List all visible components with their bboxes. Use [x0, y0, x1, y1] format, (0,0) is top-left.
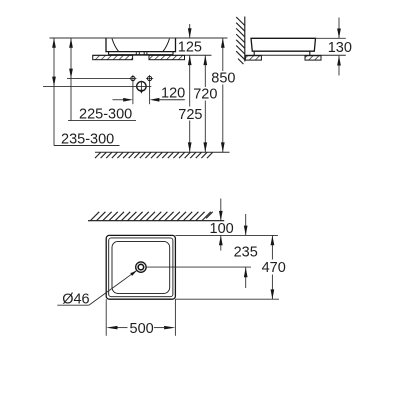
svg-text:125: 125: [178, 40, 202, 56]
wall line (side view): [244, 17, 246, 62]
drain fitting ticks under basin: [136, 52, 147, 55]
bowl curve right: [163, 39, 170, 52]
dimension 235: [245, 214, 247, 235]
reference line B through drain (235-300 level): [43, 85, 151, 87]
dimension 120: [113, 99, 127, 101]
svg-text:725: 725: [178, 107, 202, 123]
drain label text Ø46 with shelf: [57, 304, 89, 306]
mounting bracket right (side view): [305, 56, 321, 60]
dimension 130: [338, 18, 340, 39]
svg-text:120: 120: [161, 85, 185, 101]
wall hatch strokes (plan): [91, 212, 213, 221]
floor hatch strokes: [95, 152, 213, 158]
top reference line (basin rim level): [50, 37, 228, 39]
wall hatch strokes (side view): [236, 17, 245, 64]
counter hatched band left segment: [93, 55, 133, 59]
faucet hole right (front): [148, 76, 152, 80]
square bottom extension line (plan): [175, 298, 279, 300]
counter hatched band right segment: [149, 55, 185, 59]
500 extension line left: [105, 299, 107, 336]
svg-text:235: 235: [234, 244, 258, 260]
svg-text:850: 850: [211, 71, 235, 87]
drain hole circle (front): [137, 82, 146, 91]
dimension 720 line: [204, 55, 206, 87]
drain inner circle (plan): [138, 264, 144, 270]
drain outer circle (plan): [136, 262, 146, 272]
svg-text:225-300: 225-300: [79, 107, 132, 123]
dimension 725 line (shares x with 125 bottom arrow): [189, 55, 191, 106]
counter line (side view): [245, 54, 346, 56]
mounting bracket left (side view): [245, 56, 261, 60]
extension line below left faucet hole: [132, 81, 134, 104]
dimension 850 line: [222, 38, 224, 71]
floor line (front): [95, 151, 230, 153]
basin body outline (front): [106, 38, 176, 51]
225-300 text shelf: [68, 120, 136, 122]
square top extension line (plan): [175, 234, 278, 236]
top extension line (side view): [316, 37, 346, 39]
basin body (side view): [251, 38, 316, 51]
svg-text:720: 720: [193, 87, 217, 103]
dimension 225-300 vertical line: [70, 38, 72, 121]
basin foot (front): [109, 52, 173, 55]
drain centre extension line (plan): [146, 266, 251, 268]
reference line A through faucet holes (225-300 level): [67, 77, 131, 79]
dimension 470: [271, 235, 273, 259]
dimension 500: [106, 326, 117, 330]
500 extension line right: [174, 299, 176, 336]
svg-text:470: 470: [262, 260, 286, 276]
dimension 100: [220, 199, 222, 221]
bowl curve left: [112, 39, 119, 52]
basin inner bowl edge (plan): [112, 241, 170, 293]
basin rim line (plan): [109, 238, 173, 297]
extension line below right faucet hole: [149, 81, 151, 104]
svg-text:Ø46: Ø46: [62, 292, 89, 308]
dimension 235-300 vertical line: [53, 38, 55, 146]
drain vertical centerline with small arrow: [140, 81, 142, 92]
svg-text:235-300: 235-300: [61, 131, 114, 147]
counter top line (front): [93, 54, 212, 56]
svg-text:100: 100: [210, 221, 234, 237]
dimension 125 (top arrow): [189, 24, 191, 38]
svg-text:130: 130: [328, 40, 352, 56]
svg-text:500: 500: [130, 321, 154, 337]
basin outer square (plan): [106, 235, 175, 299]
235-300 text shelf: [54, 145, 120, 147]
leader line for drain diameter: [89, 270, 137, 305]
faucet hole left (front): [131, 76, 135, 80]
basin foot (side view): [254, 51, 310, 55]
wall line (plan): [88, 220, 224, 222]
